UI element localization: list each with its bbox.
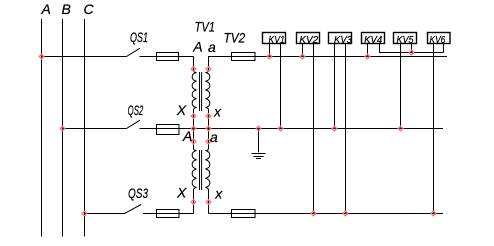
svg-text:KV6: KV6 [430,34,446,46]
svg-text:X: X [176,185,187,201]
KV3 left wire [334,44,336,129]
terminal x winding2 [206,200,211,205]
fuse FU1 [157,53,179,61]
node KV1 left [267,54,272,59]
node bus w1 left [191,126,196,131]
svg-text:B: B [62,1,71,17]
node B junction [60,126,65,131]
svg-text:KV5: KV5 [396,34,413,46]
node KV1 right [278,126,283,131]
svg-text:a: a [210,129,218,145]
wire top bus to KV area [232,56,447,58]
node KV2 right [311,211,316,216]
wire middle bus from fuse to right end [157,128,443,130]
KV4 left wire [367,44,369,57]
switch QS3 blade [125,205,142,214]
wire row1 left: A to QS1 hinge [42,56,127,58]
terminal a winding1 [206,67,211,72]
svg-text:X: X [176,102,187,118]
node KV3 left [332,126,337,131]
relay KV2 box [297,33,320,44]
svg-text:KV4: KV4 [364,34,382,46]
ground [252,153,266,155]
svg-text:KV2: KV2 [299,34,318,46]
terminal X winding1 [191,114,196,119]
KV2 right wire [313,44,315,214]
svg-text:QS1: QS1 [130,29,148,45]
KV1 left wire [269,44,271,57]
relay KV4 box [362,33,385,44]
wire row3: C to QS3 hinge [85,213,125,215]
terminal a winding2 [206,139,211,144]
terminal X winding2 [191,200,196,205]
node KV6 left [431,211,436,216]
phase line A [41,19,43,237]
KV6 right wire corner [443,44,445,53]
svg-text:C: C [84,1,95,17]
node ground tap [256,126,261,131]
node KV5 right [409,50,414,55]
svg-text:QS3: QS3 [128,185,148,201]
node KV2 left [300,54,305,59]
transformer TV1 winding 2 left coil [192,129,196,214]
fuse FU3 [157,210,180,218]
KV5 left wire [400,44,402,129]
transformer TV1 core (lower) [199,150,201,190]
KV6 left wire [433,44,435,214]
wire QS1 to fuse FU1 [140,56,158,58]
wire bottom bus to right end [232,213,443,215]
wire row2: B to QS2 hinge [63,128,127,130]
relay KV6 box [428,33,451,44]
svg-text:x: x [214,185,223,201]
relay KV1 box [263,33,286,44]
relay KV3 box [329,33,352,44]
svg-text:x: x [213,104,222,120]
phase line B [62,19,64,237]
node KV5 left [398,126,403,131]
wire winding2 x lead corner to fuse row3 right [209,213,233,215]
junction markers (red diamonds) [39,50,436,216]
node A junction [39,54,44,59]
KV4 right wire, corner to intermediate line [380,44,444,53]
wire fuse FU3 to winding2 X corner [157,213,194,215]
ground stub [258,129,260,153]
wire TV1 corner down (winding1 A lead) [193,57,195,71]
KV2 left wire [302,44,304,57]
KV3 right wire [345,44,347,214]
terminal A winding2 [191,139,196,144]
svg-text:A: A [182,128,192,144]
KV1 right wire [280,44,282,129]
svg-text:A: A [41,1,51,17]
fuse FU4 row3 right [232,210,256,218]
svg-text:KV1: KV1 [269,34,285,46]
svg-text:KV3: KV3 [334,34,352,46]
KV5 right wire [411,44,413,53]
switch QS1 blade [127,48,141,56]
svg-text:TV1: TV1 [195,19,216,35]
phase line C [84,19,86,237]
switch QS2 blade [127,120,141,128]
node C junction [82,211,87,216]
svg-text:TV2: TV2 [224,30,246,46]
fuse TV2 top [232,53,256,61]
relay KV5 box [394,33,417,44]
fuse FU2 [157,125,180,135]
node KV4 left [365,54,370,59]
transformer TV1 winding 1 left coil [192,71,196,129]
svg-text:QS2: QS2 [128,102,144,118]
node bus w1 right [206,126,211,131]
wire QS2 to fuse FU2 [140,128,158,130]
transformer TV1 core (upper) [199,72,201,111]
transformer TV1 winding 1 right coil [206,71,210,129]
node KV3 right [343,211,348,216]
transformer TV1 winding 2 right coil [206,129,210,214]
terminal A winding1 [191,67,196,72]
wire fuse FU1 through and to TV1 corner [157,56,194,58]
svg-text:a: a [208,39,216,55]
wire QS3 to fuse FU3 [143,213,157,215]
terminal x winding1 [206,114,211,119]
svg-text:A: A [192,39,202,55]
wire TV1 a lead up and right to TV2 fuse [209,57,233,71]
